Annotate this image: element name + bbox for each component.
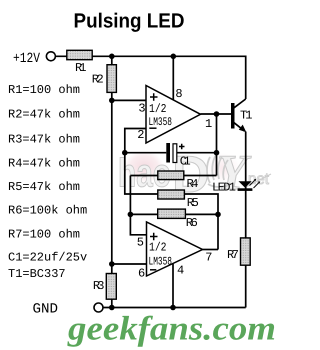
svg-text:net: net xyxy=(248,171,270,188)
svg-text:LM358: LM358 xyxy=(149,116,173,129)
svg-text:R7=100 ohm: R7=100 ohm xyxy=(8,227,80,241)
svg-text:5: 5 xyxy=(137,236,144,250)
svg-text:LED1: LED1 xyxy=(212,181,236,195)
svg-text:R5=47k ohm: R5=47k ohm xyxy=(8,180,80,194)
svg-text:LM358: LM358 xyxy=(149,256,173,269)
svg-text:R6=100k ohm: R6=100k ohm xyxy=(8,204,87,218)
svg-text:7: 7 xyxy=(205,251,212,265)
svg-text:R3=47k ohm: R3=47k ohm xyxy=(8,132,80,146)
svg-text:GND: GND xyxy=(33,302,59,318)
svg-text:R2: R2 xyxy=(92,72,104,86)
svg-text:geekfans.com: geekfans.com xyxy=(67,311,276,348)
svg-text:R1: R1 xyxy=(75,61,87,75)
svg-text:R1=100 ohm: R1=100 ohm xyxy=(8,83,80,97)
svg-text:3: 3 xyxy=(138,102,145,116)
svg-text:R2=47k ohm: R2=47k ohm xyxy=(8,108,80,122)
svg-text:8: 8 xyxy=(175,87,182,101)
svg-text:R4=47k ohm: R4=47k ohm xyxy=(8,156,80,170)
svg-text:R3: R3 xyxy=(93,279,105,293)
svg-text:C1=22uf/25v: C1=22uf/25v xyxy=(8,251,87,265)
svg-text:R5: R5 xyxy=(187,196,199,210)
svg-text:C1: C1 xyxy=(180,155,191,169)
svg-text:2: 2 xyxy=(137,128,144,142)
svg-text:6: 6 xyxy=(138,267,145,281)
svg-text:1: 1 xyxy=(205,117,212,131)
svg-text:R4: R4 xyxy=(187,177,199,191)
svg-text:R7: R7 xyxy=(227,248,239,262)
svg-text:T1=BC337: T1=BC337 xyxy=(8,267,66,281)
svg-text:Pulsing LED: Pulsing LED xyxy=(74,10,185,33)
svg-text:4: 4 xyxy=(177,264,184,278)
svg-text:T1: T1 xyxy=(240,109,253,123)
svg-text:R6: R6 xyxy=(186,216,198,230)
svg-text:1/2: 1/2 xyxy=(149,102,167,116)
svg-text:1/2: 1/2 xyxy=(149,241,167,255)
svg-text:+12V: +12V xyxy=(13,51,40,67)
